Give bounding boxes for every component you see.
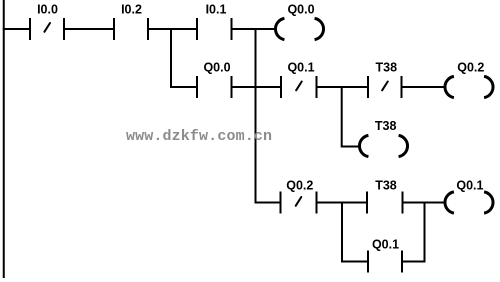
wire contact Q0.1 to vertical E	[402, 261, 426, 263]
svg-text:T38: T38	[376, 61, 398, 75]
contact Q0.2 (NC)	[281, 192, 317, 214]
left power rail	[3, 0, 5, 278]
wire vertical E up to row 4	[424, 202, 426, 263]
wire branch A to contact Q0.0	[171, 86, 197, 88]
coil Q0.0	[275, 18, 323, 39]
wire T38 to coil Q0.1	[403, 202, 446, 204]
wire T38 to coil Q0.2	[402, 86, 446, 88]
coil Q0.2	[445, 76, 493, 97]
contact I0.1 (NO)	[197, 18, 232, 40]
svg-text:Q0.0: Q0.0	[203, 61, 230, 75]
wire branch D down	[341, 202, 343, 263]
svg-text:Q0.1: Q0.1	[287, 61, 314, 75]
coil T38	[359, 135, 407, 156]
contact T38 (NO)	[367, 192, 403, 214]
svg-text:Q0.0: Q0.0	[287, 3, 314, 17]
wire I0.2 to I0.1	[148, 28, 197, 30]
wire vertical B junction	[255, 28, 257, 204]
wire branch C down to coil T38	[341, 86, 343, 148]
svg-text:I0.1: I0.1	[206, 3, 227, 17]
svg-text:Q0.2: Q0.2	[457, 61, 484, 75]
wire elbow B to contact Q0.2	[255, 202, 281, 204]
svg-text:T38: T38	[375, 119, 397, 133]
contact Q0.0 (NO)	[197, 76, 232, 98]
svg-text:I0.0: I0.0	[37, 3, 58, 17]
wire contact Q0.0 to contact Q0.1	[232, 86, 282, 88]
svg-text:www.dzkfw.com.cn: www.dzkfw.com.cn	[126, 128, 272, 145]
wire Q0.2 to T38 contact	[317, 202, 368, 204]
contact I0.2 (NO)	[114, 18, 148, 40]
contact I0.0 (NC)	[30, 18, 64, 40]
contact Q0.1 (NO)	[368, 251, 402, 273]
contact T38 (NC)	[368, 76, 402, 98]
wire I0.0 to I0.2	[64, 28, 114, 30]
wire I0.1 to coil Q0.0	[232, 28, 276, 30]
wire branch D to contact Q0.1	[342, 261, 368, 263]
coil Q0.1	[445, 192, 493, 213]
wire branch A down from I0.2 output	[170, 28, 172, 88]
svg-text:Q0.2: Q0.2	[286, 179, 313, 193]
svg-text:Q0.1: Q0.1	[372, 238, 399, 252]
wire rail to I0.0	[3, 28, 30, 30]
wire Q0.1 to T38 contact	[317, 86, 369, 88]
contact Q0.1 (NC)	[281, 76, 317, 98]
wire branch C to coil T38	[342, 146, 361, 148]
svg-text:T38: T38	[375, 179, 397, 193]
svg-text:I0.2: I0.2	[121, 3, 142, 17]
svg-text:Q0.1: Q0.1	[456, 179, 483, 193]
